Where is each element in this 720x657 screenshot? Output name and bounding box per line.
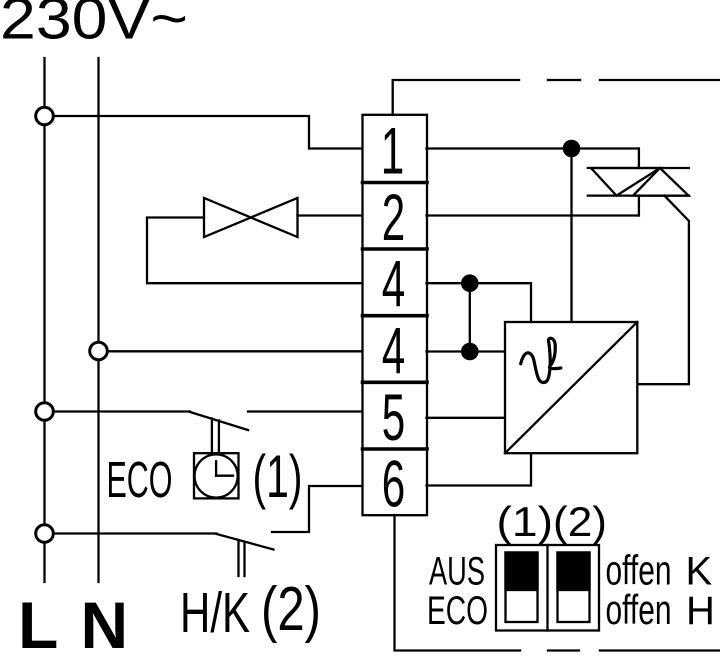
svg-text:L: L <box>18 588 58 657</box>
svg-text:H: H <box>686 589 715 633</box>
node on L (to H/K switch) <box>36 525 54 543</box>
wire terminal 5 to thermostat left <box>427 417 505 419</box>
wire L line <box>43 58 45 582</box>
wire between junction dots <box>469 283 471 351</box>
wire junction dot (terminal 4 second) <box>461 343 479 361</box>
svg-text:offen: offen <box>606 586 672 633</box>
device boundary dash-dot bottom <box>395 515 720 651</box>
wire ECO fixed contact to terminal 5 <box>248 410 363 412</box>
thermostat theta symbol <box>521 338 561 382</box>
label (1) at clock <box>253 443 303 510</box>
wire L node to H/K switch blade <box>54 532 217 534</box>
label H/K <box>180 581 250 645</box>
label L <box>18 588 58 657</box>
label 230V~ <box>0 0 188 52</box>
wire terminal 1 to triac <box>427 147 639 149</box>
svg-text:(1): (1) <box>497 498 554 545</box>
terminal cell dividers <box>363 183 428 450</box>
wire valve left loop to terminal 4 <box>147 218 363 284</box>
wire terminal 2 to valve right <box>298 214 364 216</box>
wire terminal 4 to thermostat top <box>427 283 532 321</box>
wire triac dot to thermostat top <box>570 149 572 322</box>
switch H/K blade (2) <box>217 534 274 550</box>
label ECO (switch 1) <box>107 451 173 508</box>
device boundary dash-dot top <box>393 80 720 115</box>
svg-text:2: 2 <box>382 180 405 254</box>
node on L (top, to terminal 1) <box>36 107 54 125</box>
triac symbol <box>588 168 689 196</box>
wire triac MT vertical bottom <box>638 196 640 216</box>
thermostat box <box>505 322 637 453</box>
mechanical link of H/K switch <box>237 540 239 576</box>
wire triac MT vertical top <box>638 149 640 169</box>
valve symbol <box>204 198 298 237</box>
terminal 6 label <box>382 447 405 521</box>
svg-text:(1): (1) <box>253 443 303 510</box>
clock timer symbol (1) <box>194 453 239 498</box>
label offen H <box>606 586 715 633</box>
svg-text:4: 4 <box>382 247 405 321</box>
svg-text:(2): (2) <box>261 575 321 644</box>
junction dot on terminal-1 wire <box>563 140 581 158</box>
switch ECO blade (1) <box>190 412 248 430</box>
terminal 5 label <box>382 380 405 454</box>
mechanical link of ECO switch <box>211 419 213 456</box>
node on N (to terminal 4) <box>90 342 108 360</box>
DIP switch block <box>496 545 599 631</box>
svg-text:4: 4 <box>382 314 405 388</box>
wire thermostat bottom to terminal 6 <box>427 454 532 486</box>
svg-text:230V~: 230V~ <box>0 0 188 52</box>
svg-text:5: 5 <box>382 380 405 454</box>
svg-text:(2): (2) <box>553 498 607 545</box>
label AUS <box>429 550 485 594</box>
wire L node to ECO switch blade <box>54 410 190 412</box>
wire N node to terminal 4 <box>107 350 363 352</box>
label offen K <box>606 547 713 594</box>
svg-text:6: 6 <box>382 447 405 521</box>
svg-text:N: N <box>81 588 129 657</box>
label (2) DIP <box>553 498 607 545</box>
wire terminal 4 second to thermostat left <box>427 350 505 352</box>
terminal 4 label (second) <box>382 314 405 388</box>
label (2) at switch <box>261 575 321 644</box>
wire triac gate <box>638 196 689 385</box>
terminal 1 label <box>381 114 404 188</box>
wire N line <box>97 58 99 582</box>
svg-text:AUS: AUS <box>429 550 485 594</box>
label N <box>81 588 129 657</box>
terminal 2 label <box>382 180 405 254</box>
terminal block outline <box>363 115 428 515</box>
terminal 4 label (first) <box>382 247 405 321</box>
wire junction dot (terminal 4 first) <box>461 274 479 292</box>
svg-text:1: 1 <box>381 114 404 188</box>
wire H/K fixed contact to terminal 6 <box>272 486 363 532</box>
svg-text:K: K <box>686 550 713 594</box>
node on L (to ECO switch) <box>36 403 54 421</box>
svg-text:H/K: H/K <box>180 581 250 645</box>
svg-text:ECO: ECO <box>107 451 173 508</box>
wire terminal 2 to triac <box>427 214 639 216</box>
wire L node to terminal 1 <box>53 116 363 149</box>
svg-text:ECO: ECO <box>427 589 488 633</box>
label ECO DIP <box>427 589 488 633</box>
label (1) DIP <box>497 498 554 545</box>
